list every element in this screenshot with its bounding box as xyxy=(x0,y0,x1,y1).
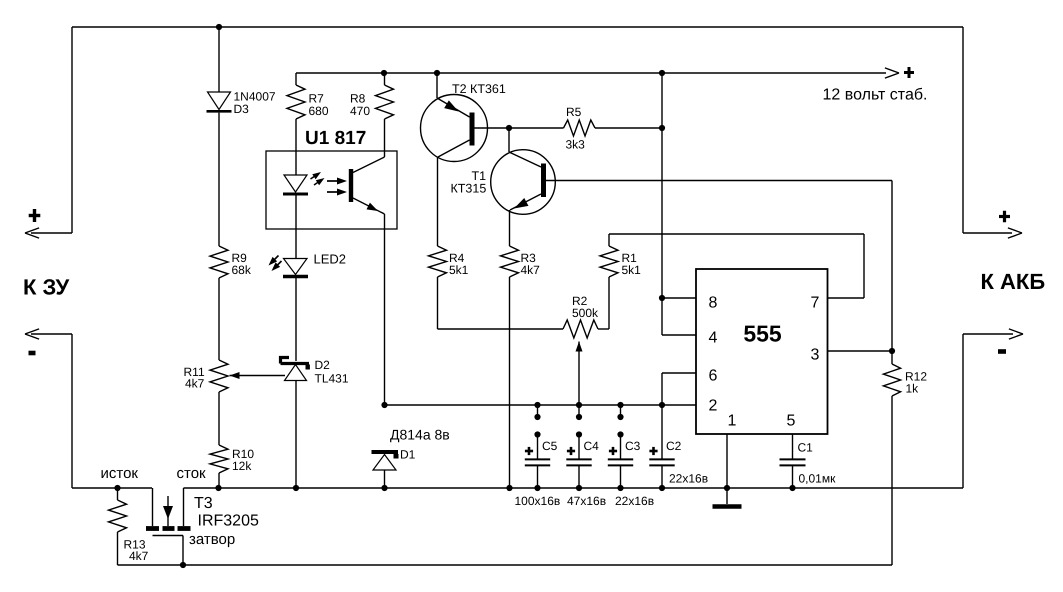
svg-text:КТ315: КТ315 xyxy=(451,182,487,196)
svg-text:4k7: 4k7 xyxy=(129,549,149,563)
svg-text:22х16в: 22х16в xyxy=(669,472,708,486)
svg-text:R5: R5 xyxy=(566,105,582,119)
svg-text:C1: C1 xyxy=(798,441,814,455)
svg-text:C4: C4 xyxy=(584,439,600,453)
svg-text:К ЗУ: К ЗУ xyxy=(23,275,69,300)
svg-text:47х16в: 47х16в xyxy=(567,494,606,508)
svg-text:U1 817: U1 817 xyxy=(305,128,366,149)
svg-text:Т3: Т3 xyxy=(194,495,213,512)
svg-text:680: 680 xyxy=(309,104,329,118)
svg-text:12k: 12k xyxy=(232,459,252,473)
svg-text:C3: C3 xyxy=(625,439,641,453)
svg-text:100х16в: 100х16в xyxy=(515,494,561,508)
svg-text:1k: 1k xyxy=(906,382,920,396)
svg-text:4: 4 xyxy=(709,330,718,347)
svg-text:7: 7 xyxy=(811,295,820,312)
svg-text:500k: 500k xyxy=(572,306,599,320)
svg-text:1: 1 xyxy=(728,413,737,430)
svg-text:4k7: 4k7 xyxy=(185,377,205,391)
svg-text:12 вольт стаб.: 12 вольт стаб. xyxy=(823,87,928,104)
svg-text:LED2: LED2 xyxy=(314,252,347,267)
svg-text:К АКБ: К АКБ xyxy=(981,269,1046,294)
svg-text:C2: C2 xyxy=(666,439,682,453)
svg-text:6: 6 xyxy=(709,368,718,385)
svg-text:D1: D1 xyxy=(400,448,416,462)
svg-text:TL431: TL431 xyxy=(315,372,349,386)
svg-text:68k: 68k xyxy=(232,263,252,277)
svg-text:D3: D3 xyxy=(234,102,250,116)
svg-text:470: 470 xyxy=(350,104,370,118)
svg-text:3: 3 xyxy=(811,347,820,364)
svg-text:5: 5 xyxy=(787,413,796,430)
svg-text:исток: исток xyxy=(101,465,139,482)
svg-text:4k7: 4k7 xyxy=(521,263,541,277)
svg-text:8: 8 xyxy=(709,295,718,312)
svg-text:D2: D2 xyxy=(315,358,331,372)
svg-text:0,01мк: 0,01мк xyxy=(799,472,837,486)
svg-text:22х16в: 22х16в xyxy=(615,494,654,508)
svg-text:затвор: затвор xyxy=(189,531,235,548)
svg-text:5k1: 5k1 xyxy=(622,263,642,277)
svg-text:C5: C5 xyxy=(542,439,558,453)
svg-text:Д814а 8в: Д814а 8в xyxy=(390,427,450,443)
svg-text:Т2 КТ361: Т2 КТ361 xyxy=(452,82,506,96)
svg-text:сток: сток xyxy=(177,465,207,482)
svg-text:2: 2 xyxy=(709,398,718,415)
svg-text:IRF3205: IRF3205 xyxy=(198,513,259,530)
svg-text:3k3: 3k3 xyxy=(566,138,586,152)
svg-text:5k1: 5k1 xyxy=(449,263,469,277)
svg-text:555: 555 xyxy=(743,321,782,347)
